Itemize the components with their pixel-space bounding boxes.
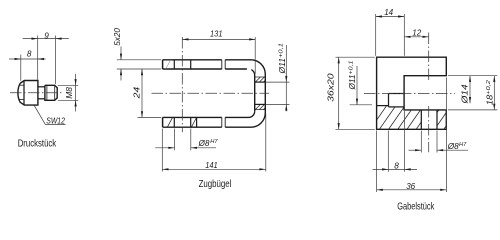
svg-text:9: 9 (44, 31, 49, 40)
hole 8 edges top arm (173, 60, 175, 69)
svg-text:SW12: SW12 (46, 117, 65, 126)
dim o11 mid: ext (265, 81, 289, 83)
dim o8H7 ext lines (174, 129, 176, 151)
dim M8 extension lines (58, 84, 78, 86)
svg-text:131: 131 (210, 30, 223, 39)
outline (377, 57, 447, 129)
dim 36 bottom line (377, 189, 447, 191)
svg-text:Ø8: Ø8 (198, 139, 210, 148)
inner box (388, 94, 390, 107)
dim o11 gab ext (350, 104, 372, 106)
svg-text:8: 8 (394, 162, 399, 171)
dim 9 extension lines (20, 55, 22, 81)
svg-text:Zugbügel: Zugbügel (199, 179, 232, 190)
dim 36x20 ext (336, 56, 375, 58)
svg-text:H7: H7 (210, 139, 218, 145)
section end line bottom arm (196, 117, 198, 127)
dim 8 gab line (373, 168, 418, 170)
dim 9 line (23, 38, 69, 40)
hex flat line upper (19, 84, 24, 86)
svg-text:12: 12 (412, 28, 421, 37)
hatch top arm left (faint) (166, 60, 171, 69)
svg-text:M8: M8 (65, 87, 74, 99)
hole 11 lower edge (254, 103, 265, 105)
break gap top arm (222, 59, 225, 70)
svg-text:Druckstück: Druckstück (18, 139, 57, 150)
svg-text:5x20: 5x20 (113, 28, 122, 46)
centerline horizontal gab (364, 93, 455, 95)
hatch bottom arm left (167, 117, 172, 127)
dim o8H7 gab ext (420, 131, 422, 153)
dim 18+0,2 ext (448, 75, 497, 77)
centerline druckstueck (10, 92, 63, 94)
bottom arm left end (162, 117, 164, 127)
dim 5x20 ext lines (117, 59, 161, 61)
dim 18+0,2 line (493, 76, 495, 110)
hole 8 edges (420, 110, 422, 129)
svg-text:Ø14: Ø14 (460, 84, 469, 105)
hatch bend bottom (255, 104, 265, 109)
section boundary top (255, 76, 266, 78)
dim 141 (161, 129, 163, 172)
svg-text:36x20: 36x20 (327, 73, 336, 102)
svg-text:24: 24 (132, 86, 141, 99)
inner contour bottom (163, 111, 255, 117)
hole 11 upper edge (254, 81, 265, 83)
dim o11 gab line (356, 66, 358, 105)
dim o8H7 line (155, 147, 174, 149)
centerline hole vertical gab bottom (428, 106, 430, 152)
top arm left end (162, 60, 164, 69)
svg-text:141: 141 (205, 161, 218, 170)
dim o8H7 gab line (409, 149, 422, 151)
svg-text:Ø8: Ø8 (447, 142, 459, 151)
dim 131 (182, 38, 255, 40)
dim 36 bottom ext (376, 131, 378, 193)
dim o14 line (469, 76, 471, 104)
svg-text:8: 8 (27, 50, 32, 59)
head tangent line (23, 81, 25, 106)
hex flat line lower (19, 99, 24, 101)
svg-text:14: 14 (384, 8, 393, 17)
head body (24, 81, 38, 106)
dim 14 (375, 14, 377, 56)
centerline horizontal (152, 92, 270, 94)
ext right 131/141 (254, 37, 256, 74)
hatch bend top (255, 77, 265, 82)
dim 5x20 line (120, 47, 122, 60)
break gap bottom arm (222, 116, 225, 128)
neck bottom (38, 98, 45, 100)
dim 24 ext bottom (138, 116, 162, 118)
inner contour top (163, 69, 255, 111)
svg-text:36: 36 (406, 182, 415, 191)
hatch bottom arm right (191, 118, 196, 128)
dim 24 (141, 69, 143, 117)
centerline hole vertical (181, 37, 183, 132)
centerline hole vertical gab top (428, 33, 430, 82)
section boundary bottom (255, 109, 266, 111)
thread M8 outline (45, 85, 57, 100)
outer contour U (163, 60, 266, 127)
dome head arc (18, 81, 24, 106)
dim M8 line (75, 74, 77, 112)
SW12 leader (34, 105, 45, 124)
neck top (38, 86, 45, 88)
thread start line (46, 85, 48, 100)
dim 8 gab ext (387, 131, 389, 172)
thread chamfer line (54, 85, 56, 100)
inner step left (377, 105, 389, 107)
dim 8 line (9, 58, 46, 60)
dim o11 mid line (285, 45, 287, 111)
dim 36x20 line (338, 57, 340, 129)
hole 8 edges bottom arm (173, 117, 175, 127)
dim 12 (404, 36, 428, 38)
svg-text:H7: H7 (459, 142, 467, 148)
svg-text:Gabelstück: Gabelstück (397, 201, 435, 212)
